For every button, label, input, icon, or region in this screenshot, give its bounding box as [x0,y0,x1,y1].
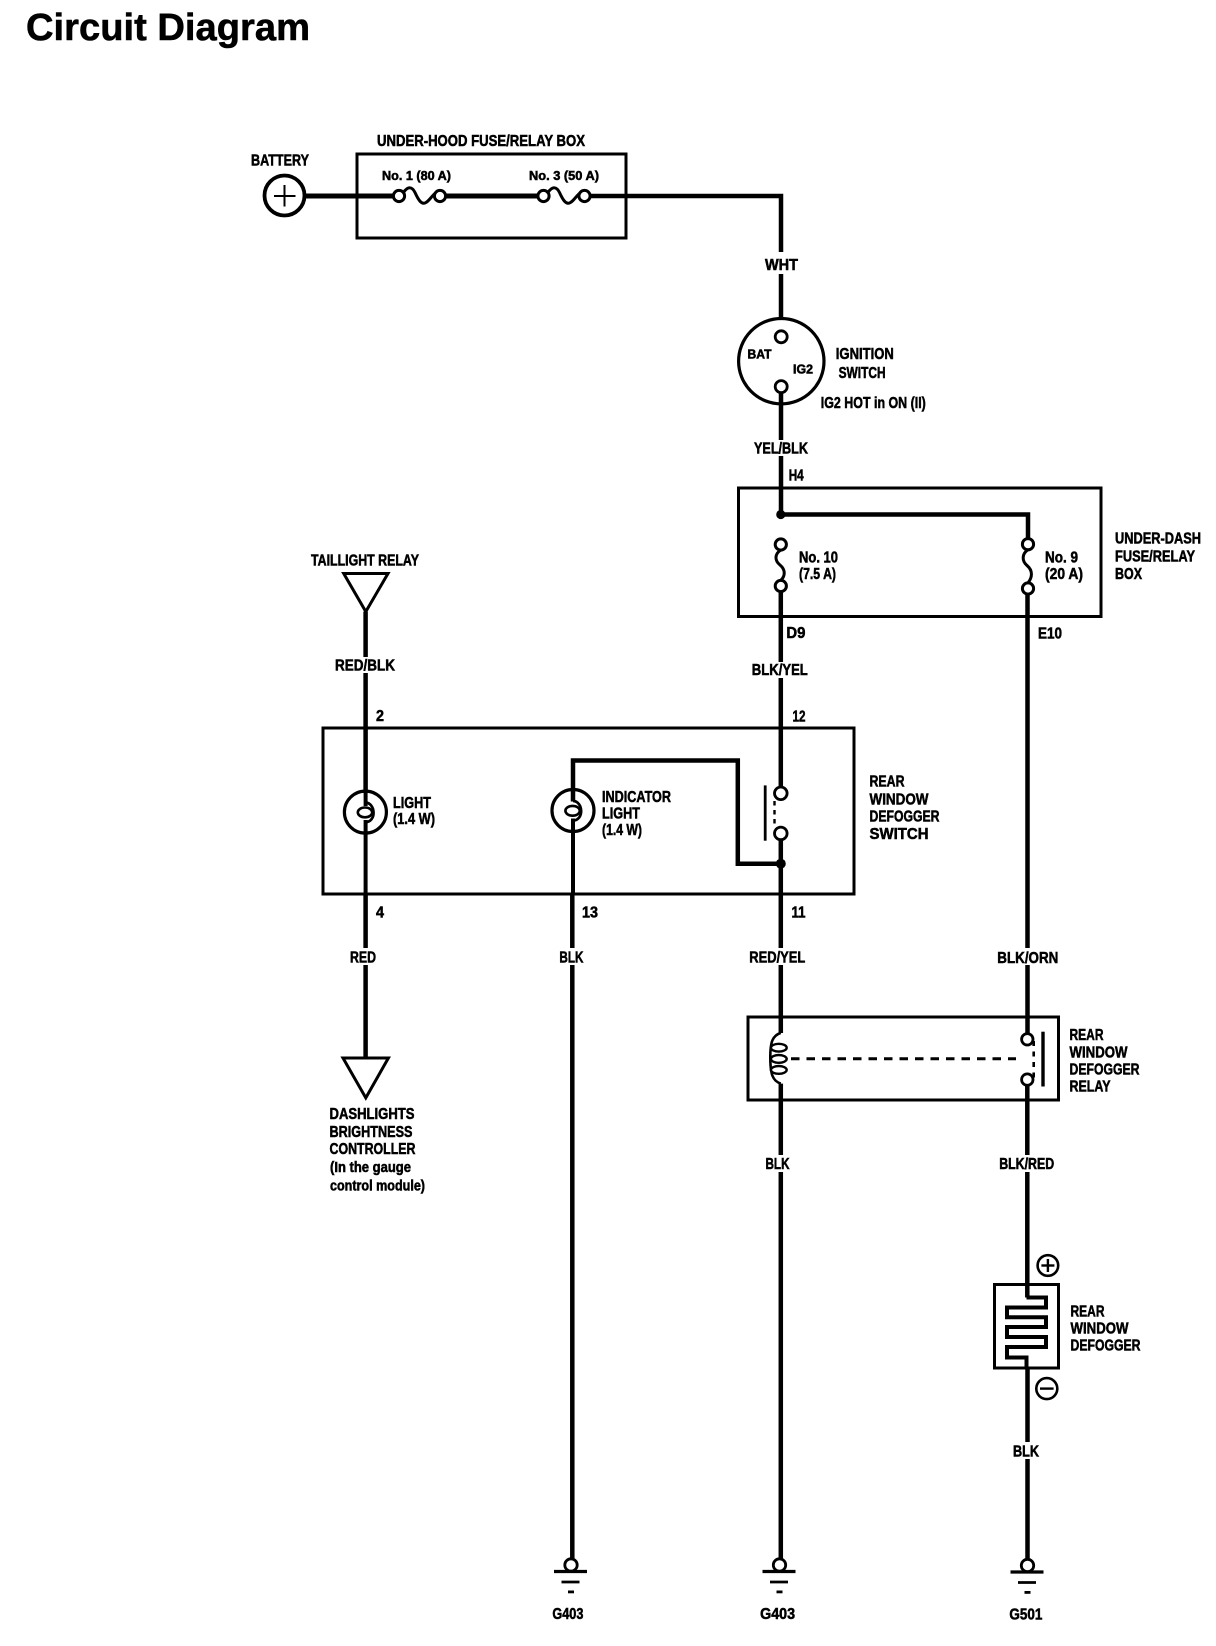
node BLK/YEL label [749,662,811,679]
svg-text:WINDOW: WINDOW [870,792,930,809]
rear window defogger relay box [748,1017,1140,1100]
svg-text:BLK: BLK [1013,1444,1039,1461]
wire pin13 to ground G403 [570,894,575,1559]
svg-text:WHT: WHT [765,257,798,274]
wire E10 down to relay [1025,594,1030,1034]
svg-text:G501: G501 [1009,1607,1042,1624]
wire battery to under-hood box [303,194,394,199]
svg-text:IG2 HOT in ON (II): IG2 HOT in ON (II) [821,395,926,412]
switch contact [765,785,787,840]
svg-text:WINDOW: WINDOW [1070,1045,1129,1062]
lamp INDICATOR LIGHT (1.4 W) [552,789,671,894]
relay coil [770,1033,786,1084]
svg-text:(1.4 W): (1.4 W) [393,811,435,828]
node BLK label (defogger) [1010,1442,1043,1461]
svg-text:SWITCH: SWITCH [839,365,886,382]
svg-text:11: 11 [792,905,806,922]
svg-text:YEL/BLK: YEL/BLK [754,441,808,458]
svg-text:(1.4 W): (1.4 W) [602,822,642,839]
svg-text:UNDER-HOOD FUSE/RELAY BOX: UNDER-HOOD FUSE/RELAY BOX [377,133,585,150]
node RED/YEL label [746,948,809,967]
svg-text:(20 A): (20 A) [1045,566,1083,583]
svg-text:BOX: BOX [1115,566,1142,583]
node BLK label (relay) [762,1155,794,1173]
svg-text:BLK: BLK [766,1156,790,1173]
fuse No.1 (80 A) [382,168,451,203]
svg-text:INDICATOR: INDICATOR [602,789,671,806]
rear window defogger switch box [323,728,940,894]
svg-text:RED/BLK: RED/BLK [335,658,395,675]
svg-text:4: 4 [376,905,384,922]
node BLK label (pin13) [556,948,587,967]
svg-text:(In the gauge: (In the gauge [330,1159,411,1176]
fuse No.9 (20 A) [1022,539,1083,595]
wire fuse2 to corner and down to ignition switch [589,196,781,333]
minus terminal [1036,1378,1057,1399]
node WHT label [758,252,804,274]
svg-text:BLK: BLK [559,950,583,967]
wire defogger to ground G501 [1025,1368,1030,1560]
junction at switch output [776,859,786,869]
wire ignition to under-dash box [779,393,784,515]
wire taillight relay to switch pin 2 [363,612,368,792]
ground G501 (defogger) [1009,1559,1043,1623]
ground G403 (relay) [760,1559,795,1623]
fuse No.10 (7.5 A) [775,539,838,592]
svg-text:Circuit Diagram: Circuit Diagram [26,7,310,49]
wire relay coil to ground G403 [779,1084,784,1559]
svg-text:No. 9: No. 9 [1045,550,1078,567]
svg-text:D9: D9 [786,625,805,642]
svg-text:REAR: REAR [1071,1304,1105,1321]
defogger heater element [1007,1298,1046,1369]
svg-text:REAR: REAR [1070,1027,1104,1044]
svg-text:2: 2 [376,708,384,725]
node RED/BLK label [334,657,397,675]
wire pin4 to dashlights arrow [363,894,368,1058]
plus terminal [1038,1255,1059,1276]
svg-text:RED: RED [350,950,376,967]
svg-text:DEFOGGER: DEFOGGER [1070,1062,1140,1079]
wire relay contact to defogger [1025,1085,1030,1298]
svg-text:BLK/YEL: BLK/YEL [752,662,808,679]
node YEL/BLK label [752,440,811,458]
svg-text:DASHLIGHTS: DASHLIGHTS [330,1106,415,1123]
svg-text:REAR: REAR [870,774,905,791]
under-hood fuse/relay box [357,133,626,238]
svg-text:CONTROLLER: CONTROLLER [330,1141,416,1158]
svg-text:BAT: BAT [748,347,772,362]
relay contact [1022,1032,1043,1087]
wire switch contact to pin 11 [779,840,784,1033]
battery [251,153,309,216]
svg-text:RED/YEL: RED/YEL [749,950,805,967]
rear window defogger box [995,1285,1141,1369]
svg-text:LIGHT: LIGHT [602,806,640,823]
lamp LIGHT (1.4 W) [344,791,435,894]
svg-text:control module): control module) [330,1178,425,1195]
wire indicator lamp to switch contact (L path) [573,761,781,864]
svg-text:BLK/ORN: BLK/ORN [997,950,1058,967]
wire D9 down to defogger switch pin 12 [779,592,784,788]
svg-text:BLK/RED: BLK/RED [999,1156,1054,1173]
svg-text:RELAY: RELAY [1070,1079,1111,1096]
fuse No.3 (50 A) [529,168,599,203]
svg-text:IG2: IG2 [793,362,813,377]
under-dash fuse/relay box [739,488,1202,617]
node RED label [348,948,379,967]
wire bus to fuse No.9 [781,515,1028,539]
svg-text:BRIGHTNESS: BRIGHTNESS [330,1124,413,1141]
svg-text:No. 1 (80 A): No. 1 (80 A) [382,168,451,183]
svg-text:FUSE/RELAY: FUSE/RELAY [1115,549,1195,566]
node BLK/ORN label [995,948,1062,967]
svg-text:DEFOGGER: DEFOGGER [1071,1338,1141,1355]
svg-text:13: 13 [582,905,598,922]
node BLK/RED label [997,1155,1058,1173]
svg-text:E10: E10 [1038,626,1062,643]
svg-text:No. 3 (50 A): No. 3 (50 A) [529,168,599,183]
svg-text:DEFOGGER: DEFOGGER [870,809,940,826]
svg-text:IGNITION: IGNITION [836,346,894,363]
svg-text:H4: H4 [789,468,804,485]
ignition switch [739,319,926,413]
taillight relay arrow [311,553,419,612]
svg-text:No. 10: No. 10 [799,550,838,567]
svg-text:12: 12 [793,709,806,726]
svg-text:G403: G403 [552,1606,583,1623]
svg-text:SWITCH: SWITCH [870,826,929,843]
svg-text:BATTERY: BATTERY [251,153,309,170]
svg-text:UNDER-DASH: UNDER-DASH [1115,531,1201,548]
svg-text:LIGHT: LIGHT [393,795,431,812]
relay dashed actuator line [791,1057,1016,1060]
svg-text:TAILLIGHT RELAY: TAILLIGHT RELAY [311,553,419,570]
junction H4 bus [776,510,785,519]
wire fuse1 to fuse2 [445,194,538,199]
dashlights brightness controller arrow [330,1058,426,1195]
svg-text:WINDOW: WINDOW [1071,1321,1130,1338]
svg-text:G403: G403 [760,1606,795,1623]
ground G403 (pin13) [552,1559,587,1623]
svg-text:(7.5 A): (7.5 A) [799,566,836,583]
